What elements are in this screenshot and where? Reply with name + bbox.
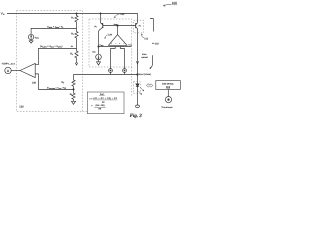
svg-text:+: + xyxy=(111,42,113,45)
svg-text:110: 110 xyxy=(155,43,159,46)
svg-text:+: + xyxy=(119,42,121,45)
svg-text:(VLED,SEN = VLED • R6): (VLED,SEN = VLED • R6) xyxy=(47,87,66,90)
svg-text:VLED: VLED xyxy=(128,43,132,46)
svg-text:IBIAS: IBIAS xyxy=(35,36,39,39)
svg-text:=: = xyxy=(91,104,93,107)
svg-text:(VB,SEN = VBUS + VSEN1): (VB,SEN = VBUS + VSEN1) xyxy=(40,45,63,48)
svg-text:−: − xyxy=(115,43,117,45)
svg-text:R6: R6 xyxy=(70,93,73,96)
svg-text:132: 132 xyxy=(120,13,125,16)
svg-text:100: 100 xyxy=(172,1,177,5)
svg-text:R2: R2 xyxy=(102,101,106,104)
svg-text:R2: R2 xyxy=(71,33,74,36)
svg-text:VSEN1 = IBIAS • R1: VSEN1 = IBIAS • R1 xyxy=(47,25,63,28)
svg-text:P1: P1 xyxy=(95,25,98,28)
svg-text:load sensor,: load sensor, xyxy=(162,82,174,85)
svg-text:136: 136 xyxy=(32,82,37,85)
svg-text:R6: R6 xyxy=(98,107,102,110)
svg-text:(R4 + R5): (R4 + R5) xyxy=(95,104,104,107)
svg-text:R1: R1 xyxy=(71,17,74,20)
svg-text:VMIR: VMIR xyxy=(114,23,118,26)
svg-text:P2: P2 xyxy=(139,24,141,27)
svg-text:drive: drive xyxy=(142,53,147,56)
svg-text:A: A xyxy=(7,69,10,73)
svg-text:current: current xyxy=(141,56,148,59)
svg-text:130: 130 xyxy=(19,106,24,109)
svg-text:(R1 + R2 + R3) • R2: (R1 + R2 + R3) • R2 xyxy=(93,97,117,100)
svg-text:R5: R5 xyxy=(62,81,65,84)
svg-text:VOUT (VFWD): VOUT (VFWD) xyxy=(139,73,151,76)
svg-text:VSEN: VSEN xyxy=(100,44,104,47)
svg-text:R3: R3 xyxy=(70,53,73,56)
svg-text:112: 112 xyxy=(144,38,148,41)
svg-text:134: 134 xyxy=(108,34,113,37)
svg-text:Vin: Vin xyxy=(1,12,5,16)
svg-text:Fig. 3: Fig. 3 xyxy=(130,113,143,119)
svg-text:IOUT: IOUT xyxy=(100,93,104,96)
svg-text:HDRV_out: HDRV_out xyxy=(2,63,15,66)
svg-text:ITAIL: ITAIL xyxy=(92,50,96,53)
svg-text:VLED,RTN,SEN: VLED,RTN,SEN xyxy=(161,105,172,108)
